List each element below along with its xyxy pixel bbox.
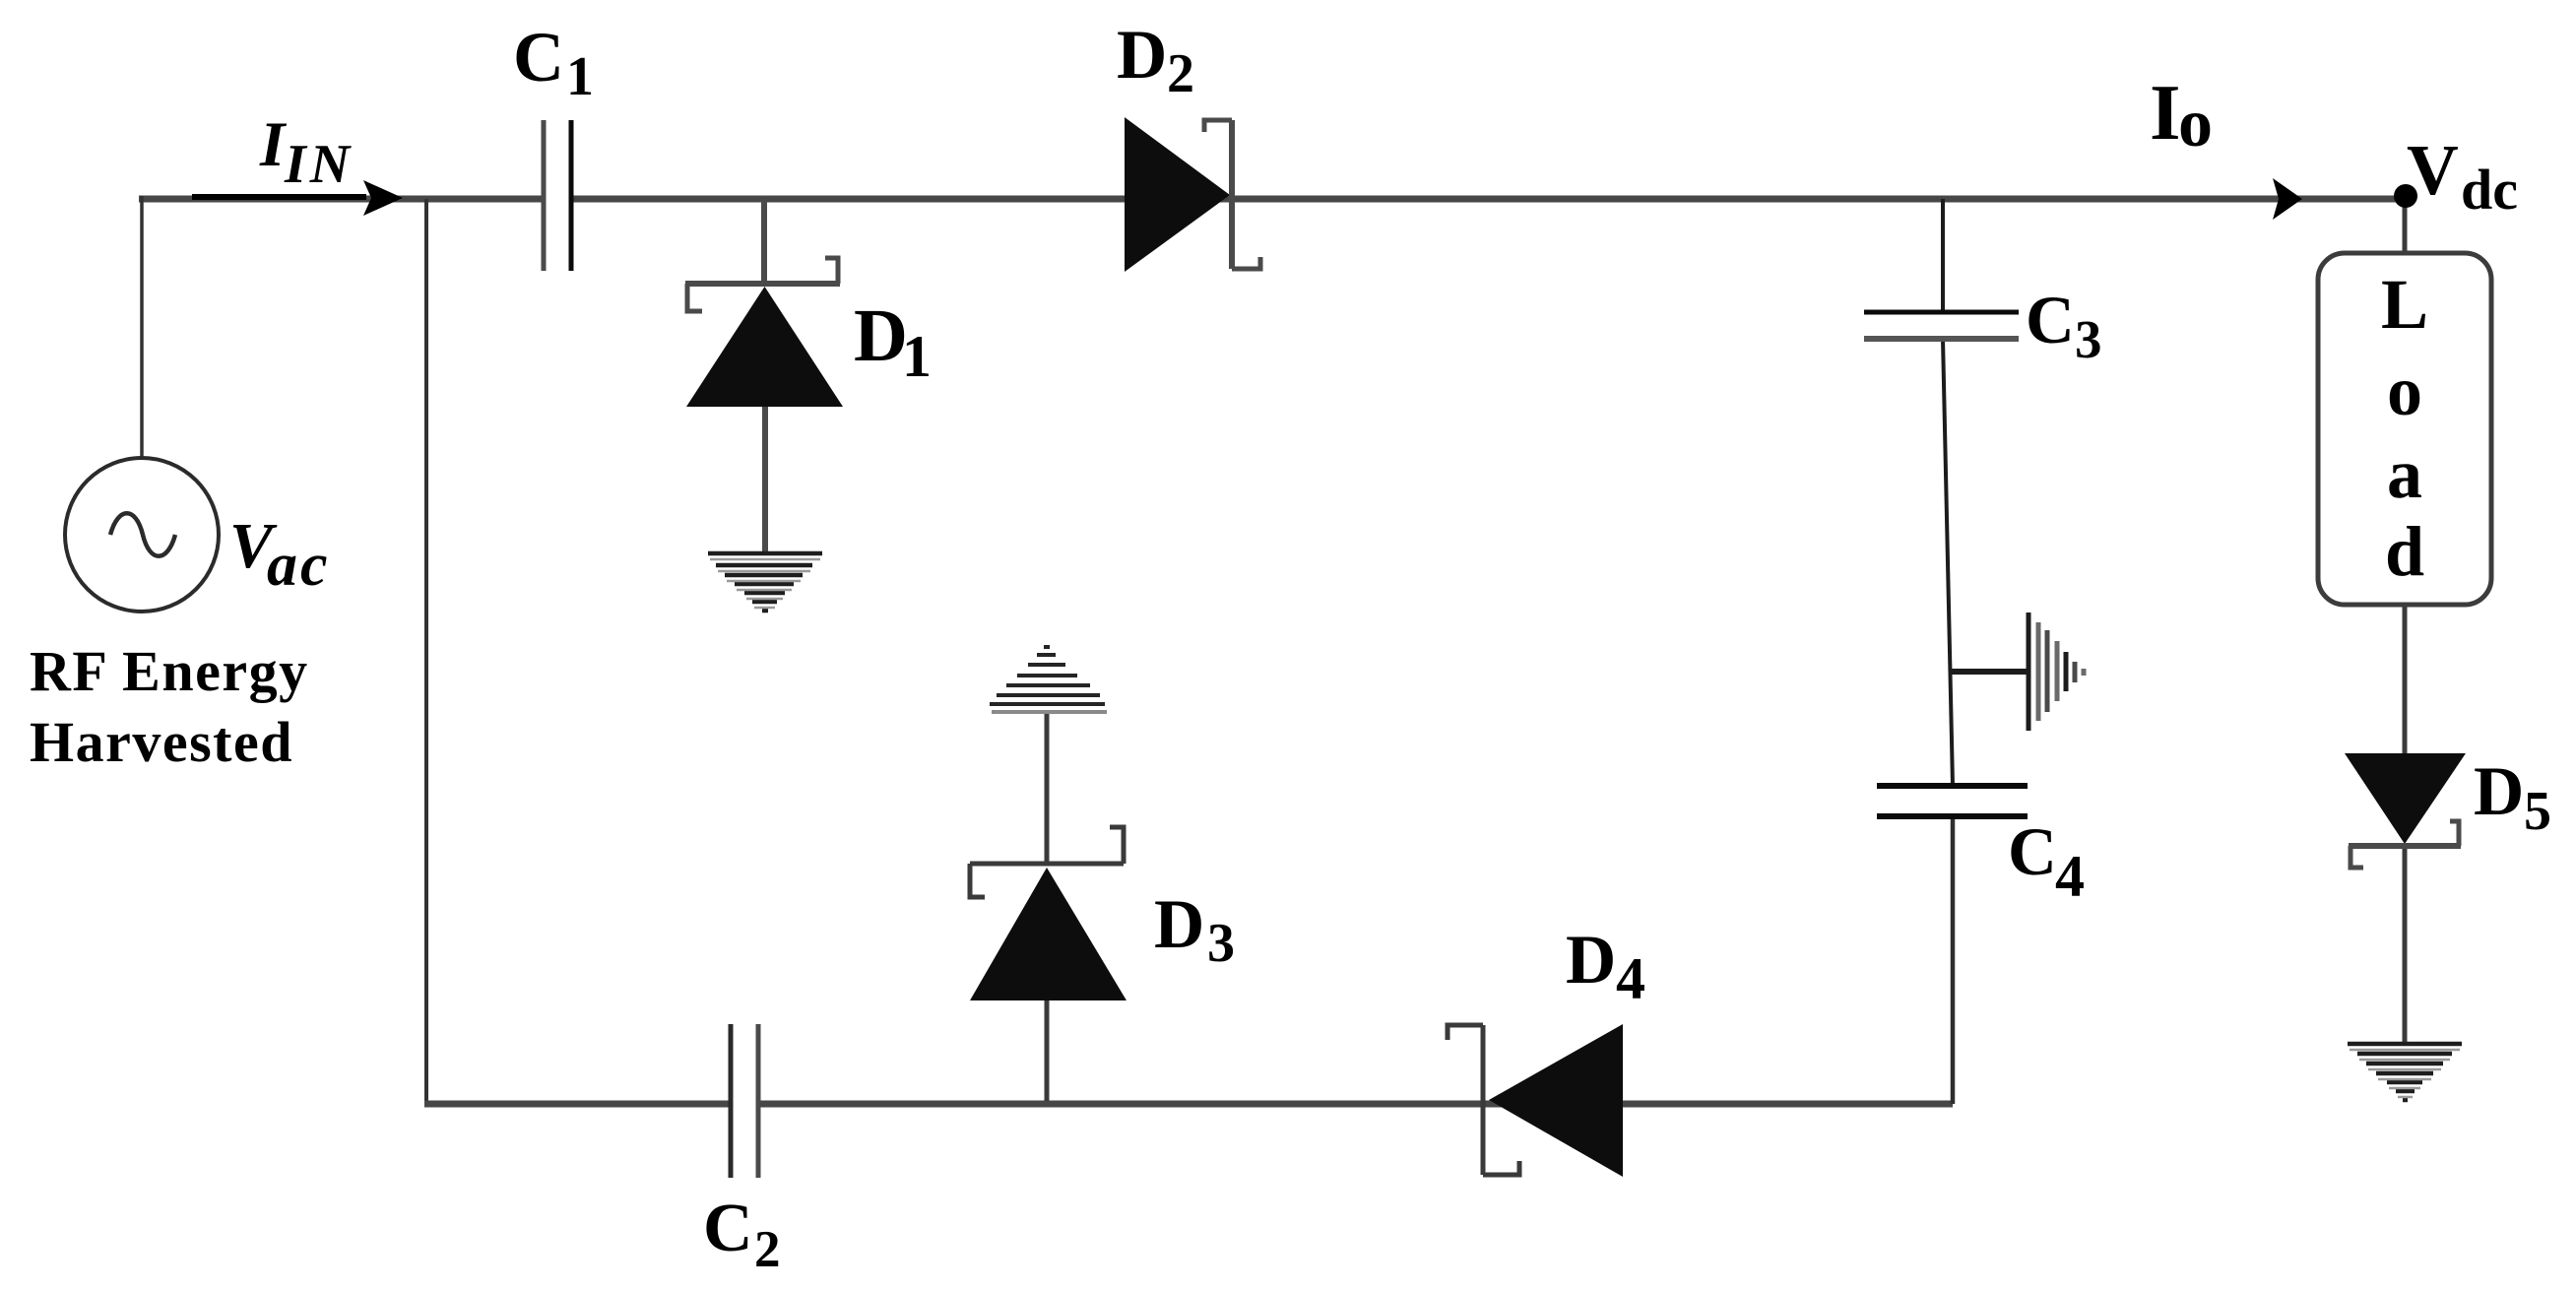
svg-text:D: D <box>1154 886 1204 963</box>
svg-text:C: C <box>703 1191 753 1266</box>
svg-text:o: o <box>2178 86 2213 161</box>
svg-text:C: C <box>513 18 564 97</box>
svg-text:C: C <box>2026 283 2075 357</box>
svg-text:1: 1 <box>566 46 594 107</box>
svg-text:RF Energy: RF Energy <box>30 639 309 703</box>
svg-text:4: 4 <box>1616 946 1645 1011</box>
svg-text:D: D <box>1566 922 1616 999</box>
svg-text:2: 2 <box>754 1221 781 1278</box>
svg-text:D: D <box>854 294 908 377</box>
svg-text:C: C <box>2008 814 2057 889</box>
svg-text:a: a <box>2387 434 2422 513</box>
svg-text:IN: IN <box>284 134 354 195</box>
svg-text:o: o <box>2387 352 2422 430</box>
svg-text:ac: ac <box>267 532 331 599</box>
svg-text:3: 3 <box>2075 309 2102 369</box>
svg-text:I: I <box>259 109 288 180</box>
svg-text:3: 3 <box>1207 913 1235 974</box>
svg-text:1: 1 <box>902 324 932 389</box>
svg-text:5: 5 <box>2524 781 2551 842</box>
svg-text:L: L <box>2381 265 2428 344</box>
svg-text:I: I <box>2150 68 2181 157</box>
svg-text:2: 2 <box>1167 43 1194 104</box>
svg-text:D: D <box>2474 753 2524 830</box>
svg-text:V: V <box>2407 130 2459 210</box>
svg-text:d: d <box>2385 512 2424 591</box>
svg-text:Harvested: Harvested <box>30 710 293 774</box>
svg-text:dc: dc <box>2461 158 2518 222</box>
svg-text:D: D <box>1117 17 1167 94</box>
svg-text:4: 4 <box>2055 844 2085 909</box>
